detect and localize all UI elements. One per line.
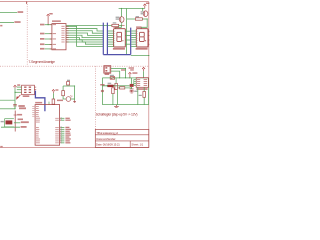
IC1 left pin label 2	[40, 33, 44, 35]
R1 label	[113, 22, 117, 23]
wire bus to D1 pin	[108, 30, 114, 32]
IC3 microcontroller box	[35, 105, 60, 146]
wire VCC rail top right	[119, 7, 145, 9]
D1 name label	[113, 26, 118, 28]
D1 pin numbers	[114, 30, 115, 33]
IC1 left pin name 3	[53, 38, 56, 41]
net label 3 small	[0, 25, 2, 27]
capacitor C3 plates	[130, 88, 134, 90]
junction T1 emitter rail	[121, 8, 122, 9]
IC3 left pin numbers	[32, 105, 34, 108]
D1 value label	[113, 48, 125, 50]
junction T1 collector node	[121, 25, 122, 26]
wire base net from IC1	[66, 25, 112, 27]
IC1 left pin wire 1	[45, 24, 52, 26]
IC1 junction VCC pin1	[48, 24, 49, 25]
wire R4 to LED	[63, 96, 66, 99]
JP2 name label	[105, 74, 110, 75]
IC1 right pin stub Q2	[66, 30, 69, 32]
7-segment display D1 box	[114, 29, 126, 47]
junction rail end	[148, 55, 149, 56]
wire T1 pin stub red	[122, 25, 125, 27]
IC1 right pin stub Q1	[66, 28, 69, 30]
wire VCC6 down	[143, 71, 145, 78]
supply VCC5 converter	[129, 72, 132, 74]
S1 wire box bottom	[5, 126, 14, 128]
ISP right pin stubs	[34, 86, 36, 88]
VCC6 label b	[130, 69, 134, 70]
wire segment Q6 staircase	[66, 40, 103, 42]
wire VCC node left	[0, 108, 15, 110]
IC1 right pin stub Q4	[66, 34, 69, 36]
wire R2 to T2 collector node	[142, 18, 147, 20]
D2 value label	[136, 48, 148, 50]
wire mid rail	[102, 85, 129, 87]
wire converter left rail	[101, 78, 103, 105]
title block row line 1	[95, 134, 149, 136]
net label 2	[14, 21, 20, 23]
IC2 pin names	[137, 78, 140, 81]
IC1 left pin wire 3	[45, 38, 52, 40]
IC1 right pin name Q5	[61, 36, 64, 39]
IC1 left pin name 4	[53, 43, 56, 46]
IC3 name label	[35, 102, 42, 104]
IC2 converter box	[136, 78, 148, 88]
transistor T2 PNP	[143, 11, 148, 17]
IC1 right pin name Q7	[61, 41, 64, 44]
IC1 left pin name 5	[53, 47, 56, 50]
supply VCC3 ISP	[14, 85, 17, 87]
wire battery plus	[111, 67, 126, 69]
wire LED rail top	[63, 85, 75, 87]
connector JP2 battery	[104, 66, 111, 74]
S1 wire box top	[5, 118, 14, 120]
frame corner mark bottom-left	[0, 146, 2, 147]
IC1 left pin label 5	[40, 48, 44, 50]
bus B1a vertical left	[102, 23, 104, 55]
IC1 left pin label 1	[40, 24, 44, 26]
wire converter bottom rail	[102, 104, 148, 106]
IC2 left pin wires	[133, 79, 135, 85]
junction VCC column	[15, 92, 16, 93]
junction top rail a	[119, 77, 120, 78]
IC1 right pin name Q6	[61, 38, 64, 41]
IC1 shift register 74HC595 box	[52, 24, 66, 50]
IC1 right pin stub Q3	[66, 32, 69, 34]
VCC1 label	[49, 13, 52, 15]
wire common rail right of bus	[131, 55, 149, 57]
wire segment Q0 staircase	[66, 26, 103, 46]
junction VCC node	[14, 108, 15, 109]
section divider vertical left (dashed)	[26, 2, 28, 67]
frame right border	[148, 2, 150, 148]
wire bus to D2 pin	[131, 30, 136, 32]
bus wire ISP to MCU (blue)	[35, 91, 45, 112]
capacitor C1 plates	[13, 104, 17, 106]
wire R3 to MCU	[52, 103, 54, 106]
wire bus to D1 pin	[108, 41, 114, 43]
wire bus to D2 pin	[131, 43, 136, 45]
wire R8 left	[118, 87, 120, 89]
JP1 name label	[23, 95, 30, 97]
wire battery plus down	[125, 68, 127, 78]
T2 value label	[141, 13, 144, 14]
diode D5 on top rail	[110, 77, 114, 80]
title block row line 2	[95, 140, 149, 142]
S1 label b	[18, 119, 23, 121]
wire bus to D1 pin	[108, 43, 114, 45]
supply VCC4 pullup	[52, 90, 55, 92]
IC3 right pin wires and labels	[60, 117, 62, 119]
svg-text:7-Segment Anzeige: 7-Segment Anzeige	[28, 60, 55, 64]
JP1 left pin wires	[17, 86, 22, 88]
wire bus to D1 pin	[108, 34, 114, 36]
ground symbol LED	[74, 100, 76, 101]
wire R8 right	[125, 87, 132, 89]
wire bus to D2 pin	[131, 45, 136, 47]
wire T1 collector stub	[121, 22, 123, 25]
D1 right pin wires	[125, 30, 130, 32]
IC1 left pin name 1	[53, 23, 56, 26]
D2 name label	[136, 26, 141, 28]
L1 name label	[108, 83, 112, 84]
wire bus to D2 pin	[131, 41, 136, 43]
IC1 right pin name Q4	[61, 34, 64, 37]
wire S1 out 2	[1, 126, 20, 128]
svg-text:Date: 06/16/09 15:21: Date: 06/16/09 15:21	[96, 143, 120, 147]
ground symbol ISP	[18, 95, 21, 98]
T1 value label	[116, 18, 120, 19]
bus B2 vertical middle	[130, 28, 132, 55]
wire battery minus	[111, 71, 120, 78]
wire rail down right	[74, 86, 76, 100]
wire R5 bottom	[112, 94, 114, 105]
S1 label a	[17, 114, 22, 116]
wire segment Q3 staircase	[66, 33, 103, 35]
D1 decimal point	[122, 40, 123, 41]
wire Q1 top	[115, 78, 117, 84]
connector JP1 ISP header	[22, 85, 35, 95]
resistor R8 horizontal	[120, 87, 125, 89]
wire select-2 to R2	[127, 18, 136, 20]
IC1 left pin wire 5	[45, 48, 52, 50]
wire C1 to node	[14, 106, 16, 109]
wire VCC3 to ISP header	[15, 91, 22, 93]
switch S1 body	[6, 120, 13, 124]
wire bus to D1 pin	[108, 32, 114, 34]
D2 digit segments	[140, 31, 145, 33]
wire IC2 bottom 1	[137, 87, 139, 104]
IC1 right pin stub Q0	[66, 25, 69, 27]
X1 label	[67, 80, 70, 81]
bus B1b vertical left	[106, 23, 108, 55]
S1 name label	[1, 121, 4, 122]
svg-text:Sheet: 1/1: Sheet: 1/1	[131, 143, 143, 147]
R7 label	[139, 95, 142, 96]
R3 value label	[57, 100, 63, 102]
resistor R5 vertical	[112, 88, 115, 94]
wire segment Q2 staircase	[66, 31, 103, 33]
wire segment Q1 staircase	[66, 29, 103, 31]
resistor R3 pullup	[52, 99, 55, 104]
title block column line	[129, 141, 131, 148]
section divider horizontal (dashed)	[0, 65, 149, 67]
wire bus to D2 pin	[131, 32, 136, 34]
D1 digit segments	[117, 31, 122, 33]
IC1 left pin wire 4	[45, 43, 52, 45]
VCC3 label	[17, 84, 20, 86]
IC1 right pin name Q1	[61, 27, 64, 30]
capacitor C2 electrolytic	[130, 84, 134, 87]
net label VCC node	[19, 107, 26, 109]
wire VCC net left (faint)	[0, 99, 15, 101]
wire segment Q5 staircase	[66, 38, 103, 40]
VCC5 label	[132, 72, 137, 74]
junction battery plus	[125, 68, 126, 69]
frame tick top	[26, 1, 28, 4]
wire C2 top	[131, 78, 133, 84]
transistor Q1 vertical	[115, 83, 118, 89]
wire R1 to T1	[119, 25, 122, 27]
title block outer box	[95, 129, 149, 147]
IC1 right pin name Q2	[61, 29, 64, 32]
IC1 right pin stub Q7	[66, 41, 69, 43]
IC1 left pin wire 2	[45, 33, 52, 35]
7-segment display D2 box	[136, 29, 148, 47]
D2 decimal point	[145, 40, 146, 41]
section divider vertical right (dashed)	[95, 66, 97, 129]
inductor L1 solid on mid rail	[107, 85, 113, 87]
IC1 right pin stub Q5	[66, 37, 69, 39]
wire VCC4 to R3	[52, 93, 54, 99]
L1 value label	[100, 84, 104, 86]
VCC4 label	[55, 89, 58, 90]
net label battery	[121, 69, 126, 70]
wire T2 emitter	[142, 8, 144, 11]
svg-text:TITLE: ansteuerung_v4: TITLE: ansteuerung_v4	[96, 131, 118, 135]
wire anode 1 to display D1	[116, 26, 122, 29]
wire bus to D2 pin	[131, 39, 136, 41]
junction L1 left	[107, 85, 108, 86]
D2 pin numbers	[137, 30, 138, 33]
component X1 small	[67, 82, 70, 85]
svg-text:Document Number:: Document Number:	[96, 137, 116, 141]
IC1 left pin name 2	[53, 32, 56, 35]
wire bus to D1 pin	[108, 45, 114, 47]
C3 label	[134, 91, 137, 92]
resistor R4	[62, 91, 65, 96]
wire C2 C3	[131, 87, 133, 89]
wire bus to D2 pin	[131, 34, 136, 36]
net label 1	[18, 11, 24, 13]
IC1 right pin stub Q6	[66, 39, 69, 41]
wire switch column	[117, 90, 119, 105]
ground symbol converter 1	[115, 105, 117, 107]
IC1 right pin name Q3	[61, 32, 64, 35]
svg-text:Schaltregler (step-up 5V -> 12: Schaltregler (step-up 5V -> 12V)	[96, 112, 138, 116]
wire anode 2 to display D2	[141, 19, 147, 29]
supply VCC2 top right	[143, 4, 146, 6]
transistor T1 PNP	[119, 17, 124, 23]
wire bus to D1 pin	[108, 39, 114, 41]
net stub SEG wire 1	[0, 12, 17, 14]
wire converter right rail	[148, 78, 150, 105]
wire R7 bottom	[143, 97, 145, 104]
IC1 left pin label 4	[40, 43, 44, 45]
wire bus to D1 pin	[108, 37, 114, 39]
wire IC2 bottom 2	[143, 87, 145, 91]
R2 label	[136, 16, 139, 17]
junction L1 right	[113, 85, 114, 86]
wire VCC3 down	[14, 88, 16, 108]
S1 tick	[14, 114, 17, 116]
IC3 left pin names	[36, 105, 39, 108]
LED D3	[66, 97, 71, 102]
resistor R1 base T1	[112, 24, 119, 26]
wire bus to D2 pin	[131, 37, 136, 39]
bus bottom rail	[103, 54, 130, 56]
switch S1 actuator line	[14, 111, 16, 132]
wire reset stub	[48, 102, 50, 105]
C1 value label	[18, 105, 24, 107]
junction T2 emitter rail	[142, 8, 143, 9]
D5 label	[110, 75, 114, 76]
junction LED rail	[74, 85, 75, 86]
IC1 right pin name Q0	[61, 25, 64, 28]
VCC6 label a	[129, 67, 134, 68]
wire select-2 vertical	[126, 9, 128, 55]
supply VCC6 above IC2	[142, 67, 145, 69]
resistor R2 base T2	[135, 18, 142, 20]
supply VCC1 above IC1	[47, 14, 50, 16]
S1 wire box left	[4, 119, 6, 127]
T2 name label	[141, 11, 144, 12]
IC1 left pin label 3	[40, 38, 44, 40]
wire converter top rail	[102, 77, 148, 79]
net label S1 out 2	[21, 126, 27, 128]
wire S1 out 1	[14, 122, 20, 124]
IC2 value label MC34063A	[136, 88, 147, 90]
T1 name label	[116, 17, 120, 18]
junction T2 collector node	[147, 18, 148, 19]
IC1 name label	[52, 20, 61, 22]
wire segment Q7 staircase	[66, 42, 103, 44]
D2 right pin stubs	[148, 30, 150, 32]
wire LED right	[71, 98, 75, 100]
net label S1 out 1	[21, 121, 29, 123]
net stub SEG wire 2	[0, 22, 14, 24]
capacitor C4 on left rail	[101, 89, 104, 91]
ground symbol converter 2	[131, 90, 133, 92]
resistor R7	[143, 92, 146, 98]
VCC2 label	[146, 3, 149, 5]
frame top border	[0, 1, 149, 3]
frame bottom border	[0, 147, 149, 149]
wire segment Q4 staircase	[66, 35, 103, 37]
wire rail to R4	[62, 86, 64, 91]
wire T1 emitter	[120, 8, 122, 17]
